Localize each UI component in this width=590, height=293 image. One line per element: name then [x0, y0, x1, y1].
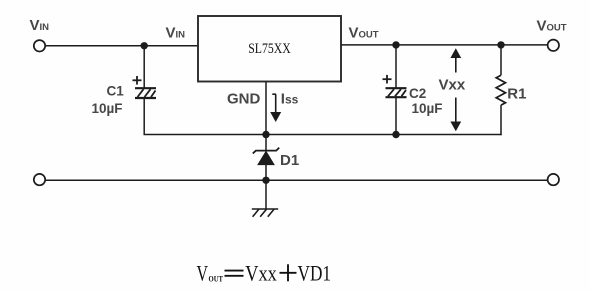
svg-text:V: V [197, 261, 209, 286]
svg-text:VOUT: VOUT [537, 18, 567, 35]
wire: R1 lower lead [500, 105, 502, 135]
terminal lower-left [34, 174, 45, 185]
label formula equals sign [225, 271, 244, 276]
svg-text:R1: R1 [507, 86, 526, 103]
terminal Vin (input, top-left) [34, 40, 45, 51]
terminal lower-right [548, 174, 559, 185]
resistor R1 (zigzag) [496, 75, 505, 105]
svg-text:10µF: 10µF [412, 101, 443, 116]
wire: D1 cathode lead from common rail [265, 135, 267, 151]
svg-text:C2: C2 [409, 86, 426, 101]
ground [252, 209, 278, 217]
wire: C1 upper lead [143, 46, 145, 88]
wire: common rail (C1 to R1 bottom) [144, 134, 502, 136]
svg-text:OUT: OUT [209, 274, 224, 284]
arrow Iss (current direction) [270, 94, 281, 122]
svg-text:VOUT: VOUT [349, 25, 379, 42]
op-amp U1: regulator IC box SL75XX [198, 16, 341, 82]
terminal Vout (output, top-right) [548, 40, 559, 51]
svg-text:GND: GND [227, 91, 261, 108]
svg-text:C1: C1 [107, 84, 125, 99]
wire: IC GND lead down to common rail [265, 82, 267, 135]
svg-text:D1: D1 [280, 152, 299, 169]
wire: C1 lower lead [143, 98, 145, 135]
label formula Vout = Vxx + VD1 [197, 261, 332, 286]
diode D1 (zener) [253, 148, 279, 165]
svg-text:VD1: VD1 [298, 261, 332, 286]
node: junction of input rail and C1 branch [141, 42, 148, 49]
label C2 plus sign [383, 75, 392, 84]
svg-text:SL75XX: SL75XX [248, 41, 291, 57]
wire: output rail from IC VOUT pin to Vout terminal [341, 44, 548, 46]
arrow Vxx upper (dimension arrow up) [450, 48, 461, 72]
wire: C2 lower lead [395, 97, 397, 134]
wire: C2 upper lead [395, 45, 397, 88]
svg-text:Vxx: Vxx [439, 76, 466, 93]
node: junction of C2 lower lead and common rail [392, 131, 399, 138]
wire: R1 upper lead [500, 45, 502, 75]
wire: lower rail [46, 179, 548, 181]
wire: D1 anode lead down to lower rail [265, 165, 267, 181]
wire: input rail from Vin terminal to IC VIN pin [46, 45, 198, 47]
svg-text:Iss: Iss [281, 91, 299, 108]
svg-text:Vxx: Vxx [245, 261, 276, 286]
svg-text:10µF: 10µF [92, 101, 123, 116]
node: junction of output rail and R1 branch [497, 41, 504, 48]
wire: ground lead [265, 180, 267, 209]
node: junction of D1 branch and lower rail [262, 177, 269, 184]
node: junction of GND lead, D1 and common rail [262, 131, 269, 138]
label formula plus sign [280, 264, 297, 281]
svg-text:VIN: VIN [30, 17, 50, 34]
capacitor C1 (polarized, hatched plates) [135, 88, 156, 98]
node: junction of output rail and C2 branch [392, 41, 399, 48]
label C1 plus sign [133, 76, 142, 85]
arrow Vxx lower (dimension arrow down) [450, 98, 461, 132]
capacitor C2 (polarized, hatched plates) [386, 88, 407, 97]
svg-text:VIN: VIN [166, 25, 186, 42]
